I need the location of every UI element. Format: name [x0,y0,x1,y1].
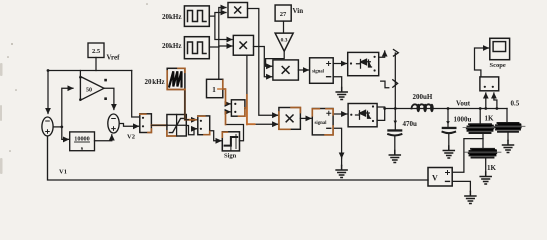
ground (R3) [503,141,514,153]
ground (gate B) [336,166,347,178]
comparator block [198,116,210,135]
wire IGBT1 emitter stub [381,81,389,88]
gain block 0.3 [275,33,293,51]
wire sign output to offset sum bottom (highlighted loop) [226,112,244,141]
svg-text:50: 50 [86,87,92,93]
svg-text:200uH: 200uH [413,93,433,101]
saturation block [167,115,186,137]
svg-text:0.3: 0.3 [281,38,288,44]
wire line end to resistor R3 [506,109,508,123]
wire PWM B to gate signal B [300,117,311,119]
wire adder output to saturation (highlighted) [151,124,167,126]
wire integrator output to sum2 bottom [95,135,112,141]
wire gate A plus to IGBT1 [333,63,346,65]
wire multiplier2 output down to PWM multiplier A bottom [254,47,272,77]
svg-text:2.5: 2.5 [92,48,101,55]
PWM multiplier A [273,60,299,80]
voltage sense block (scope input) [480,77,499,91]
wire pulse2 to multiplier2 [209,46,232,47]
IGBT switch S2 [348,104,377,127]
wire rail down to sum1 top input [47,71,49,114]
sawtooth generator 20kHz [167,68,185,89]
integrator block 10000/s [70,132,95,152]
constant block 2.5 (Vref source) [88,43,104,58]
svg-text:20: 20 [145,78,153,86]
svg-text:V: V [432,174,438,183]
svg-text:0.5: 0.5 [511,100,520,108]
gate signal block A [310,58,334,84]
wire multiplier1 output down to PWM multiplier B top [248,9,278,116]
wire gate A minus to ground [333,77,342,88]
wire sum2 output to adder V2 [119,124,138,127]
wire saturation output to comparator bottom [186,126,196,135]
svg-text:Vref: Vref [107,54,121,62]
wire constant 1 to offset sum top (highlighted) [223,89,231,104]
wire sum1 output to node [53,126,62,128]
sign block [222,132,239,151]
wire node up to op-amp input [62,88,73,127]
paper specks [7,3,148,152]
svg-text:1K: 1K [487,164,497,172]
wire Vref source to rail [95,58,97,71]
wire PWM A to gate signal A [298,69,308,71]
wire offset sum output bus (highlighted) [245,56,278,124]
multiplier1 block [228,3,248,18]
wire sense lead 1 [485,93,487,109]
wire sawtooth to comparator top (highlighted) [185,90,192,120]
sum junction V1 loop (ellipse sum1) [42,117,53,136]
wire gate B minus down to ground [333,128,342,158]
ground (C2) [443,146,454,158]
wire sense lead 2 [494,93,497,109]
svg-text:V2: V2 [127,134,135,141]
resistor R1 1K [463,124,497,133]
capacitor C2 1000u [442,109,457,150]
port marker bottom right of op-amp [104,97,107,100]
adder block (V2 + Vref) [140,114,152,133]
wire R2 to ground [485,158,487,172]
wire to resistor R1 [479,109,481,125]
multiplier2 block [233,35,253,55]
svg-text:kHz: kHz [152,78,164,86]
ground (R2) [480,172,491,184]
wire Vref rail [48,70,132,72]
wire constant 1 top feed to multiplier1 [219,8,226,80]
wire sense block to scope [475,48,489,77]
svg-text:Vin: Vin [293,7,304,15]
pulse generator 1 (20kHz) [184,6,209,27]
wire gain output to PWM multiplier A top [266,51,285,66]
wire pulse1 to multiplier1 and multiplier2 [209,13,226,17]
capacitor C1 470u [387,121,402,155]
ground (C1) [389,151,400,163]
resistor R3 0.5 [492,123,525,132]
edge smudges [0,63,3,174]
svg-text:signal: signal [312,70,325,75]
ground (gate A) [336,88,347,100]
PWM multiplier B [279,108,301,130]
node rail left [47,69,50,72]
sum junction V2 (ellipse sum2) [108,114,119,133]
wire op-amp output to sum2 top [104,88,114,109]
svg-text:20kHz: 20kHz [162,13,181,21]
svg-text:470u: 470u [403,120,418,128]
wire IGBT1 collector up [379,51,385,57]
wire R1 to R2 [482,134,484,149]
op-amp U1 gain 50 [79,76,104,101]
wire rail to op-amp top vertex [79,71,81,77]
node IGBT2 output [383,107,386,110]
scope block [490,38,510,59]
constant block 27 (Vin source) [275,5,291,21]
wire IGBT2 collector stub [377,106,385,108]
node divider tap [479,107,482,110]
offset sum block (1+sign) [231,100,245,116]
node bus to filter line [394,107,397,110]
gate signal block B [312,109,333,135]
svg-text:Sign: Sign [224,153,237,160]
wire switch-node bus vertical [394,53,396,129]
voltmeter block V [428,168,452,187]
connector chevron mid [393,80,398,87]
svg-text:1K: 1K [485,115,495,123]
pulse generator 2 (20kHz) [184,37,209,59]
wire highlight marks (orange annotations) [140,68,333,137]
svg-text:1: 1 [212,85,216,94]
IGBT switch S1 [348,52,379,75]
svg-text:27: 27 [280,11,287,18]
inductor L1 200uH [412,104,434,112]
svg-text:V1: V1 [59,169,67,176]
wire R3 to ground [507,132,509,140]
svg-text:20kHz: 20kHz [162,42,181,50]
wire Vin to gain 0.3 [283,21,285,32]
connector chevron top [394,50,399,57]
wire feedback V1 [48,136,429,180]
wire node down to integrator input [62,127,69,139]
port marker top right of op-amp [104,79,107,82]
node C2 tap [447,107,450,110]
svg-text:1000u: 1000u [454,116,472,124]
node sum1 output [60,126,63,129]
wire Vref rail down to adder top input [132,71,139,118]
resistor R2 1K [465,149,501,158]
wire main filter line [385,108,507,110]
wire gate B plus to IGBT2 [333,113,347,115]
svg-text:Scope: Scope [490,62,506,69]
ground (voltmeter) [465,192,476,204]
constant block 1 [207,79,223,97]
svg-text:Vout: Vout [456,100,471,108]
svg-text:signal: signal [315,121,328,126]
wire voltmeter minus to ground [452,181,470,191]
wire IGBT2 output to filter line [377,109,385,121]
wire voltmeter plus to divider midpoint [452,139,483,173]
wire comparator output to sign block [210,131,222,141]
